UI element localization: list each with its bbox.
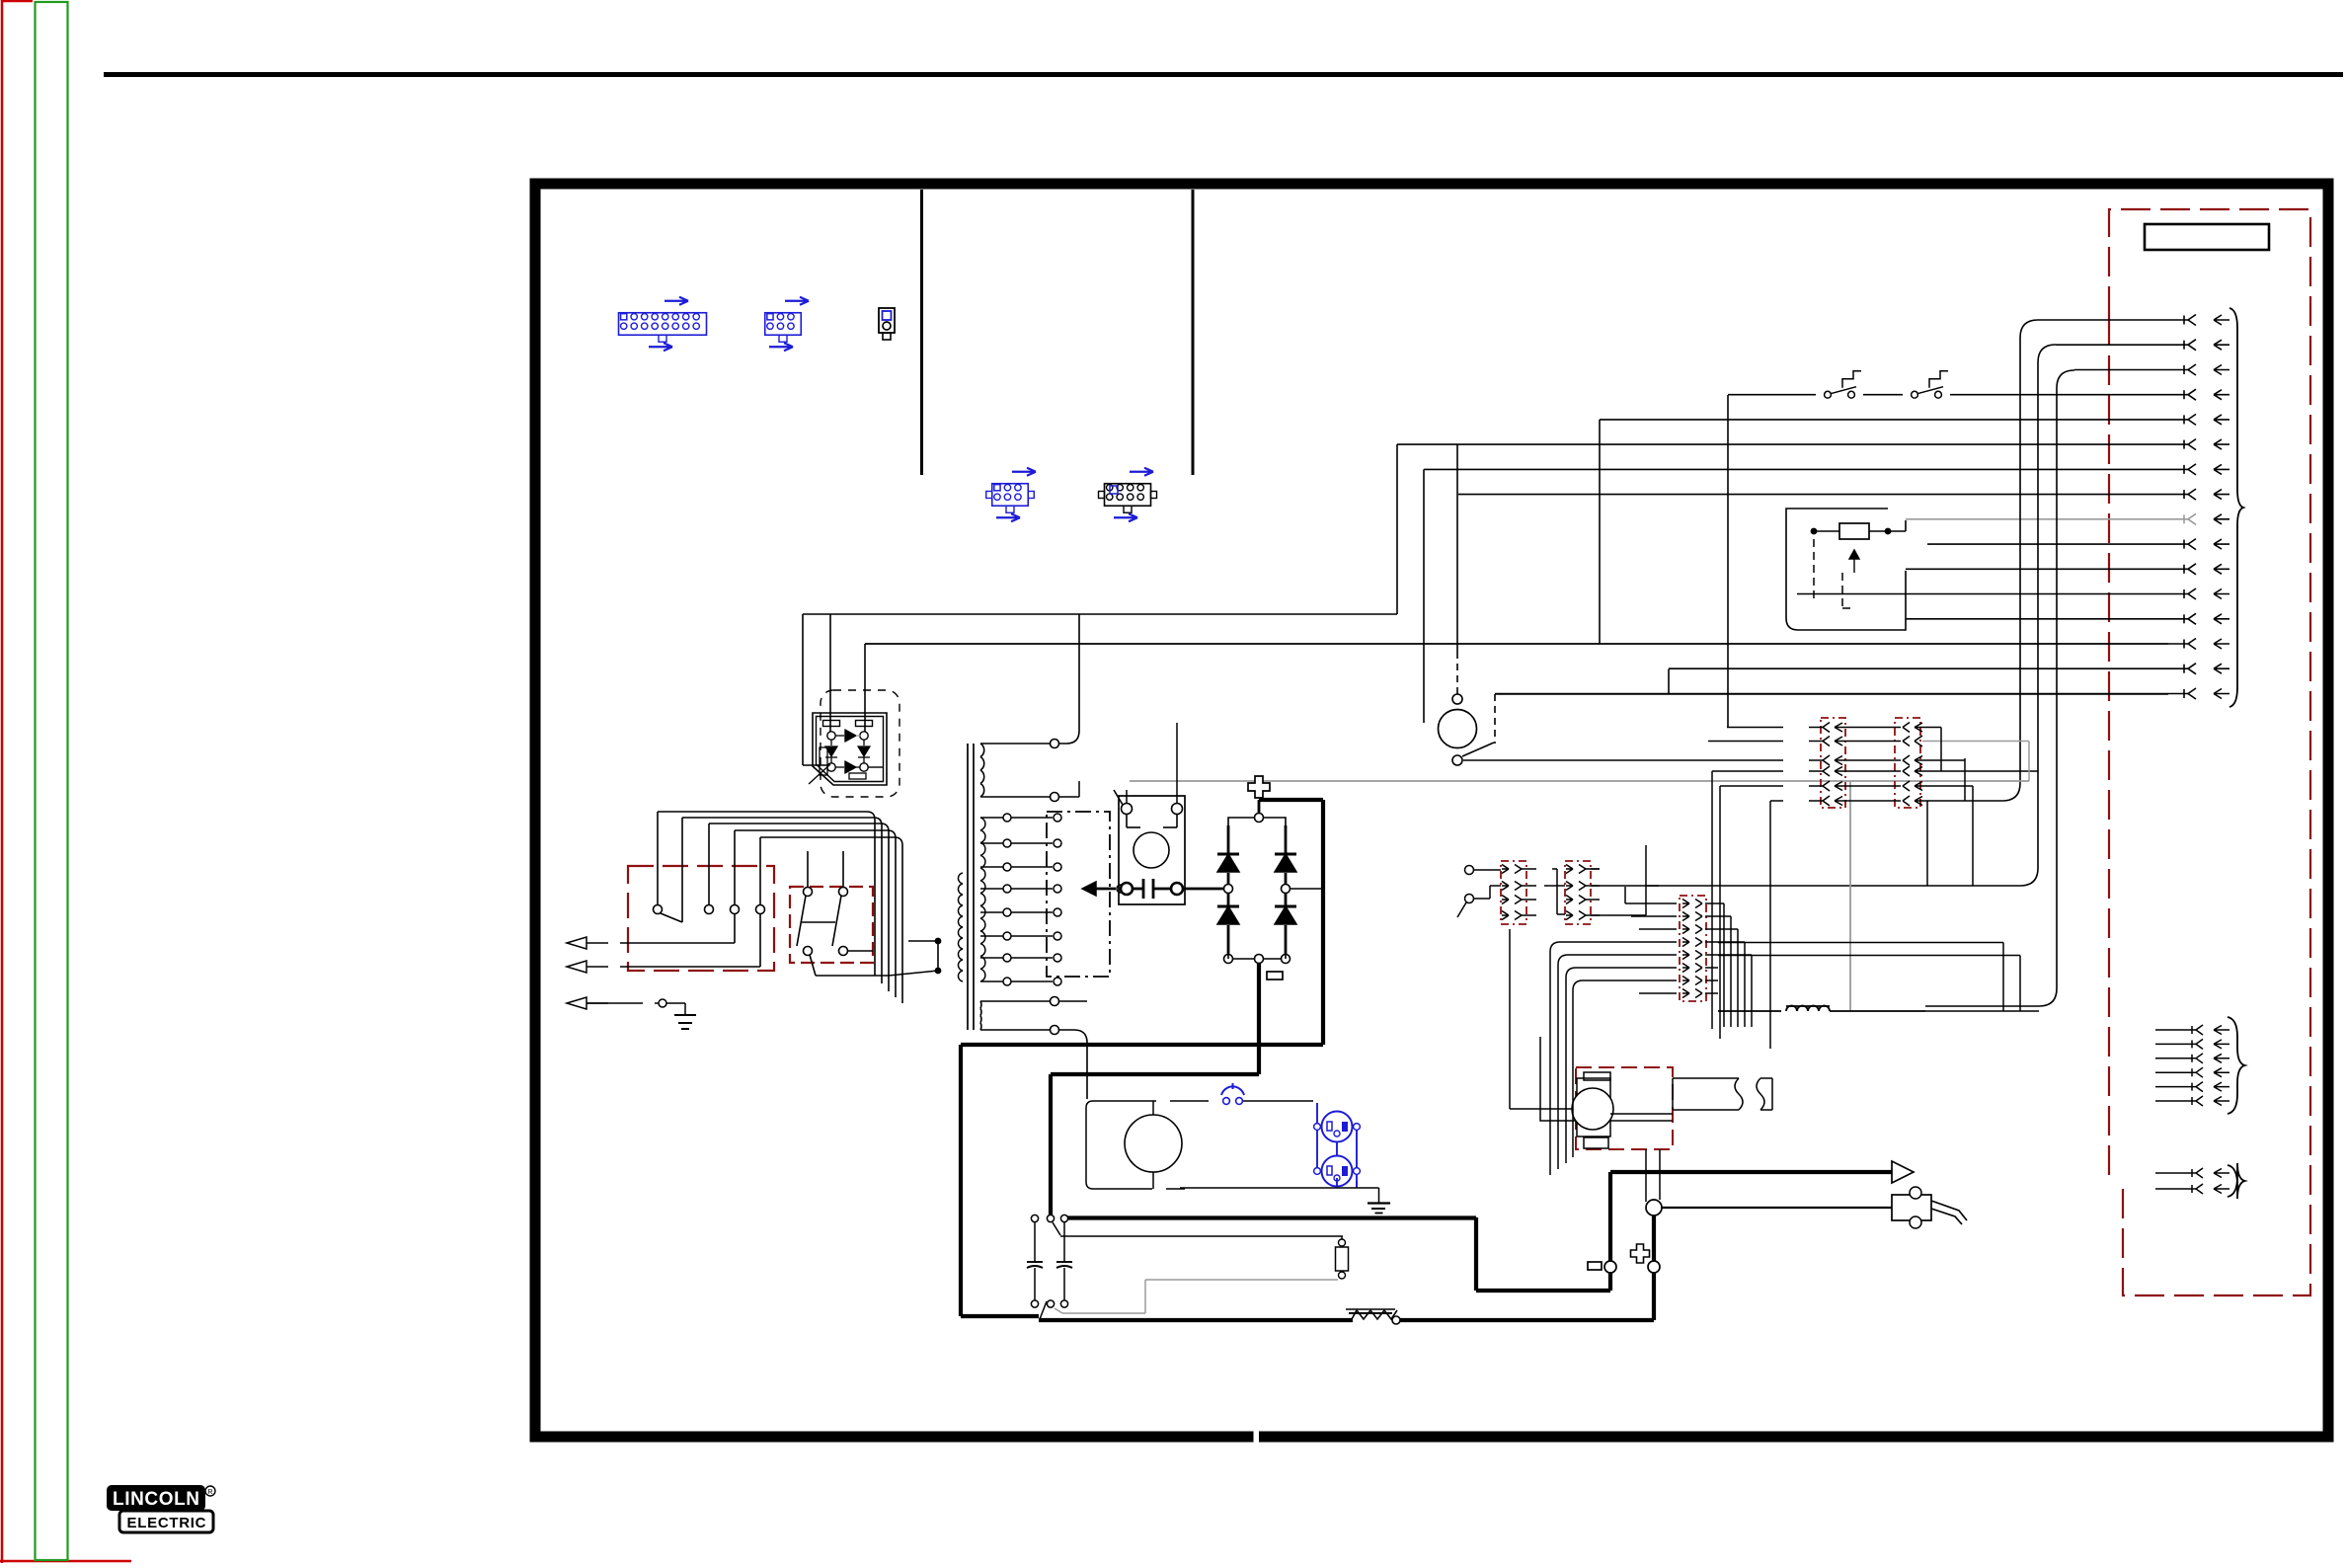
svg-text:R: R — [207, 1489, 212, 1496]
svg-text:ELECTRIC: ELECTRIC — [127, 1515, 206, 1531]
svg-text:LINCOLN: LINCOLN — [113, 1489, 199, 1510]
